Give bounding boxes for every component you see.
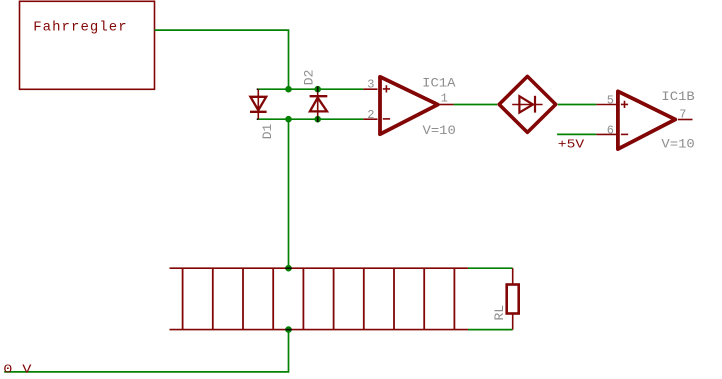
svg-text:+5V: +5V (558, 138, 584, 151)
svg-text:6: 6 (607, 124, 614, 138)
svg-text:5: 5 (607, 93, 614, 107)
svg-text:V=10: V=10 (661, 138, 694, 152)
svg-text:Fahrregler: Fahrregler (33, 20, 128, 36)
svg-text:0 V: 0 V (3, 364, 32, 377)
svg-text:D1: D1 (260, 123, 275, 139)
svg-text:7: 7 (679, 107, 686, 121)
svg-text:IC1B: IC1B (661, 90, 694, 104)
svg-text:IC1A: IC1A (422, 77, 456, 91)
svg-text:RL: RL (492, 305, 507, 321)
svg-text:D2: D2 (302, 70, 317, 86)
svg-text:3: 3 (367, 78, 374, 92)
svg-text:V=10: V=10 (423, 124, 456, 138)
svg-text:1: 1 (441, 92, 448, 106)
svg-text:2: 2 (367, 108, 374, 122)
